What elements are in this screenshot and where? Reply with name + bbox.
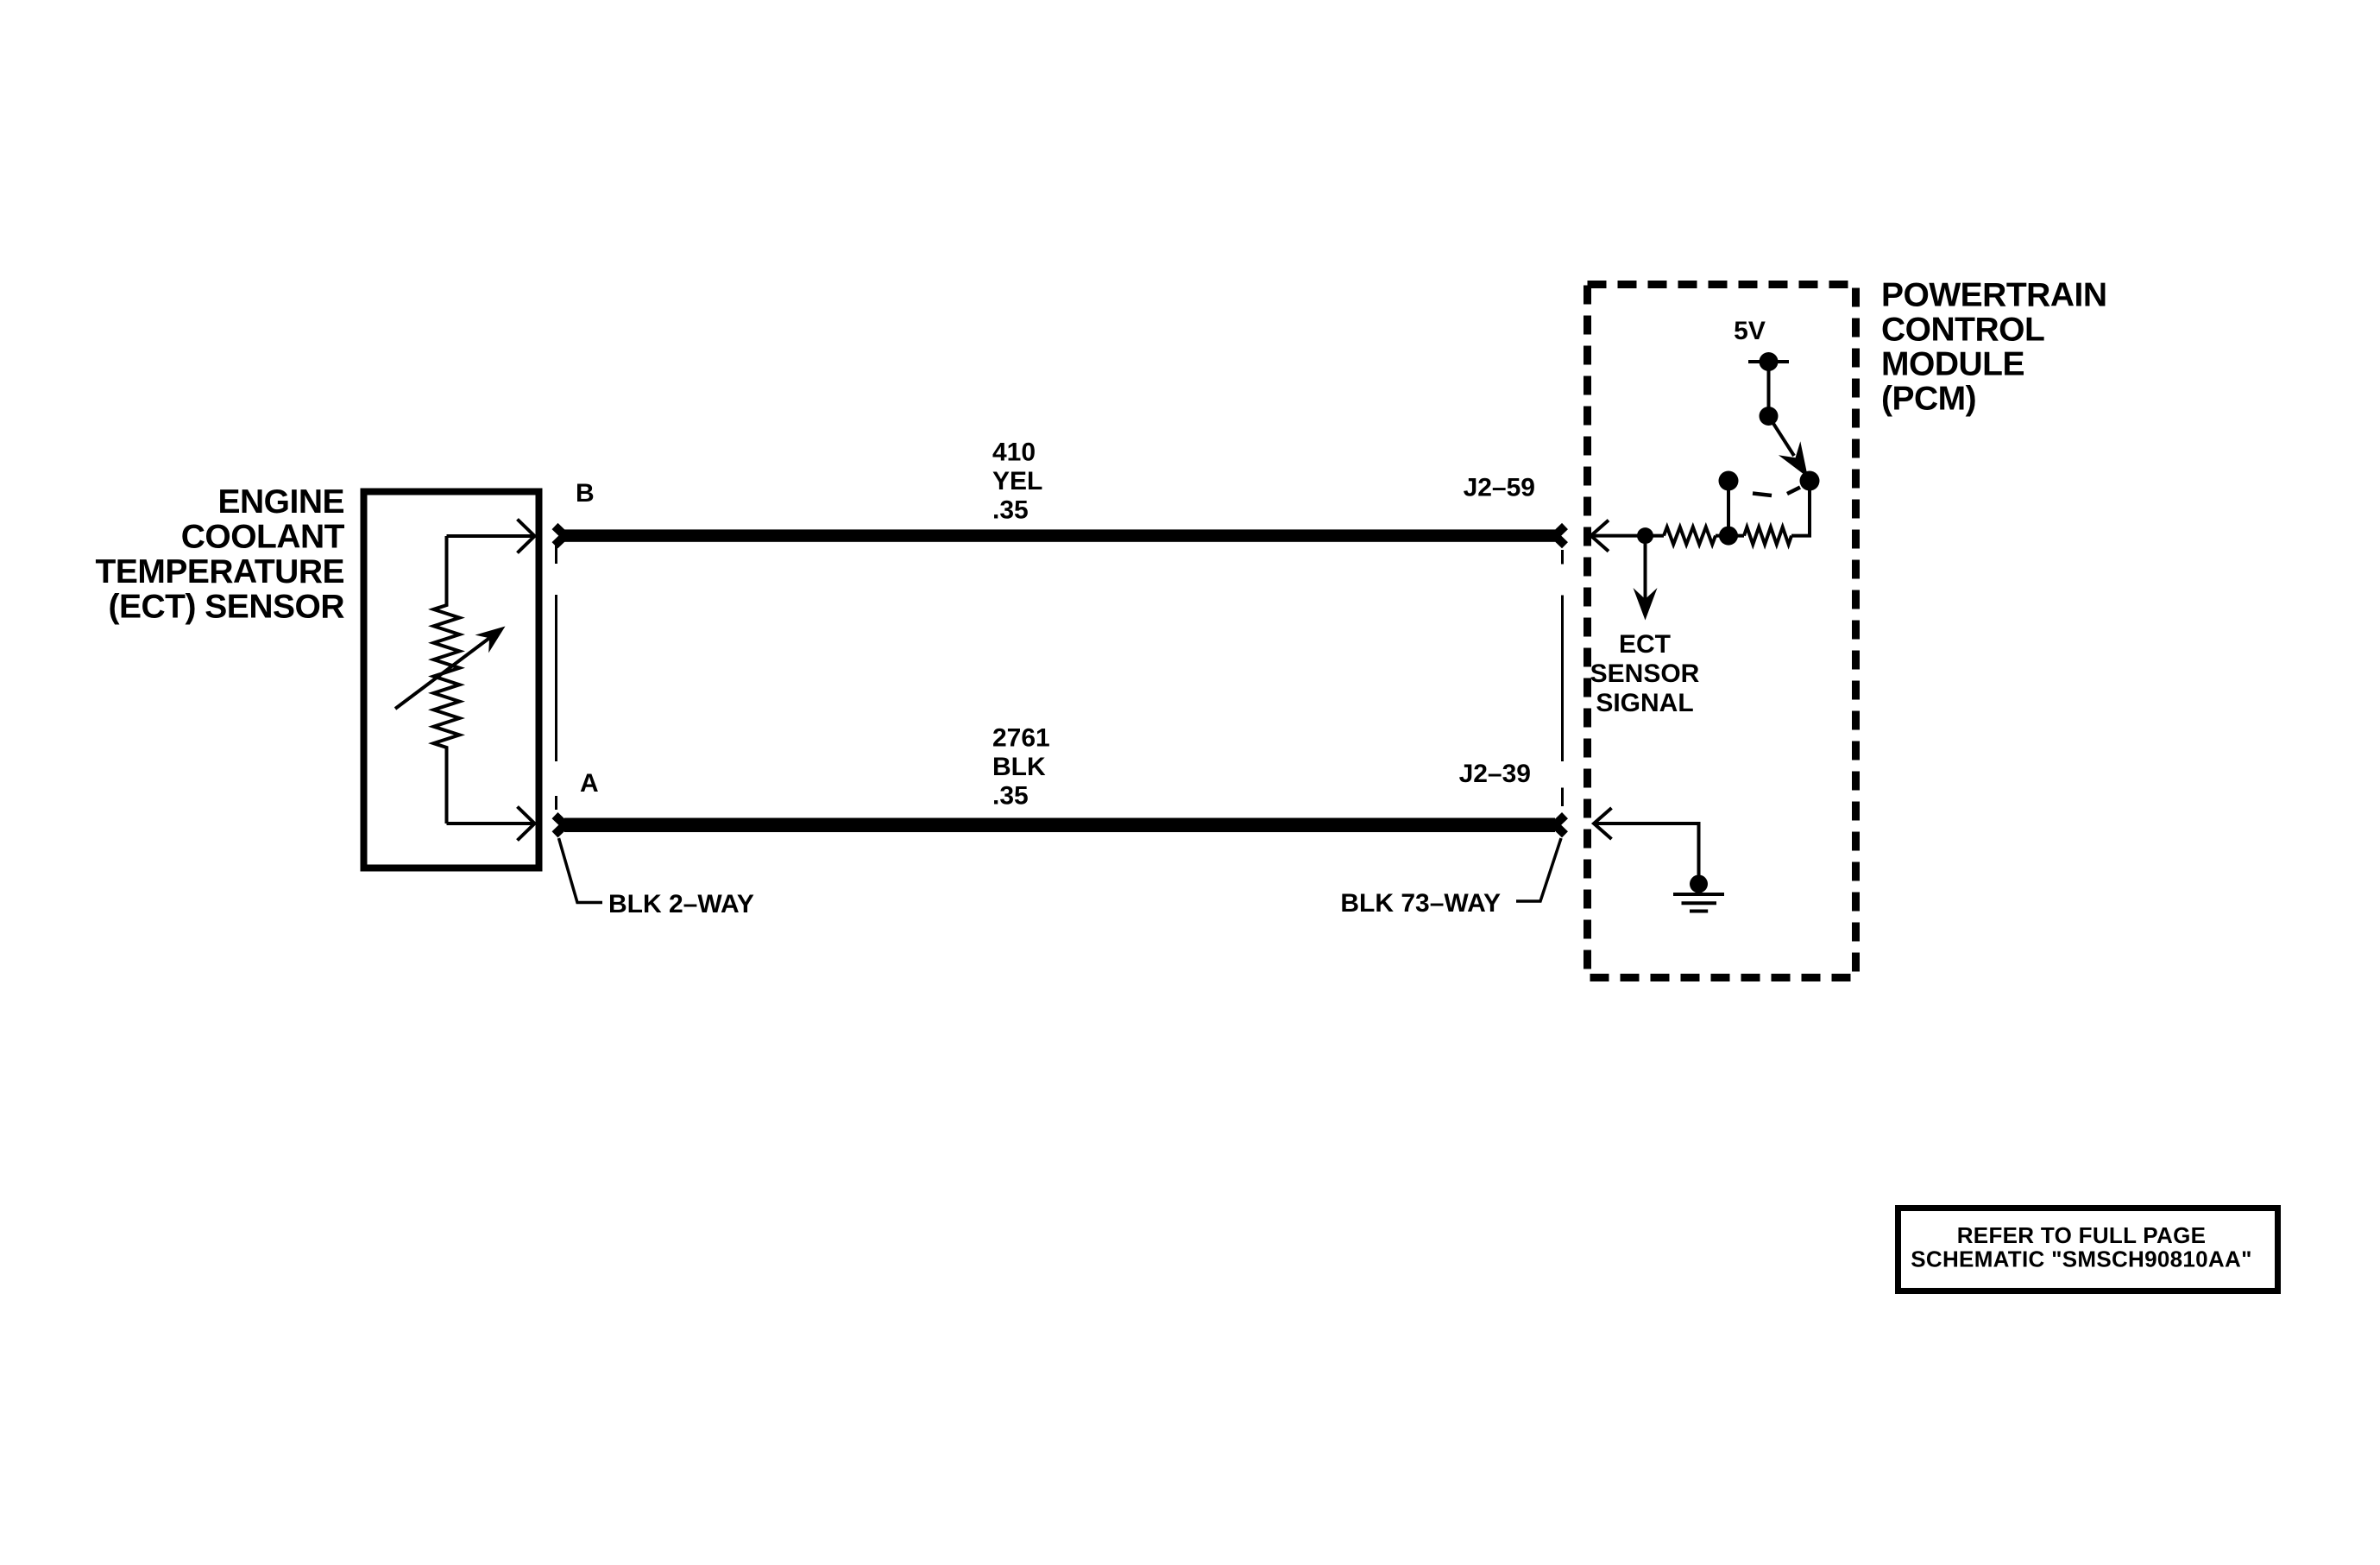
- ECT sensor name label: [96, 483, 345, 626]
- ground junction dot: [1690, 875, 1708, 893]
- svg-text:A: A: [580, 769, 599, 798]
- PCM name label: [1881, 277, 2107, 418]
- wire 410 YEL (top heavy wire): [564, 529, 1555, 541]
- PCM dashed box: [1588, 285, 1856, 978]
- BLK 2-WAY leader line: [559, 838, 603, 903]
- ECT sensor signal arrow: [1634, 544, 1658, 621]
- switch wiper arrow: [1769, 416, 1809, 477]
- svg-text:B: B: [576, 479, 595, 508]
- svg-text:5V: 5V: [1734, 317, 1766, 345]
- ground symbol: [1673, 894, 1724, 912]
- PCM pin J2-59 input arrow: [1591, 521, 1609, 552]
- svg-text:BLK 2–WAY: BLK 2–WAY: [608, 890, 754, 918]
- ECT sensor box: [364, 492, 539, 868]
- wire 2761 BLK (bottom heavy wire): [564, 818, 1555, 833]
- sensor pin B lead wire: [447, 520, 535, 553]
- wire R2 to right tap: [1791, 481, 1810, 536]
- node dot (left tap): [1719, 471, 1739, 491]
- ECT SENSOR SIGNAL label: [1590, 630, 1700, 717]
- junction dot (resistor divider): [1719, 527, 1738, 546]
- top wire left terminal chevron: [555, 527, 565, 546]
- wire J2-59 to resistor network: [1591, 534, 1664, 538]
- reference note text: [1911, 1222, 2251, 1272]
- svg-text:REFER TO FULL PAGESCHEMATIC "S: REFER TO FULL PAGESCHEMATIC "SMSCH90810A…: [1911, 1222, 2251, 1272]
- switch pivot dot: [1760, 407, 1779, 426]
- wiper dashed link: [1753, 488, 1800, 496]
- 5V supply node bar: [1748, 360, 1789, 363]
- resistor R2: [1744, 527, 1791, 545]
- wire J2-39 to ground: [1594, 824, 1699, 875]
- svg-text:BLK 73–WAY: BLK 73–WAY: [1340, 889, 1501, 918]
- wire 5V to switch: [1767, 362, 1771, 416]
- top wire right terminal chevron: [1555, 527, 1565, 546]
- bottom wire left terminal chevron: [555, 816, 565, 835]
- sensor pin A lead wire: [447, 807, 535, 841]
- thermistor RT (variable resistor element): [434, 536, 460, 824]
- wire 410 value label: [992, 439, 1042, 525]
- wire between resistors: [1716, 534, 1744, 538]
- PCM pin J2-39 input arrow: [1594, 808, 1612, 839]
- bottom wire right terminal chevron: [1555, 816, 1565, 835]
- BLK 73-WAY leader line: [1516, 838, 1561, 901]
- junction dot (signal node): [1637, 527, 1653, 544]
- svg-text:J2–39: J2–39: [1459, 760, 1531, 788]
- reference note box: [1898, 1208, 2278, 1291]
- node dot (right tap): [1800, 471, 1820, 491]
- wire left tap down: [1727, 481, 1730, 536]
- resistor R1: [1664, 527, 1716, 545]
- thermistor variable arrow: [395, 627, 506, 710]
- connector BLK 2-WAY boundary line: [555, 546, 557, 810]
- svg-text:J2–59: J2–59: [1464, 474, 1535, 502]
- wire 2761 value label: [992, 724, 1050, 811]
- 5V node junction dot: [1760, 352, 1779, 371]
- connector BLK 73-WAY boundary line: [1561, 550, 1564, 806]
